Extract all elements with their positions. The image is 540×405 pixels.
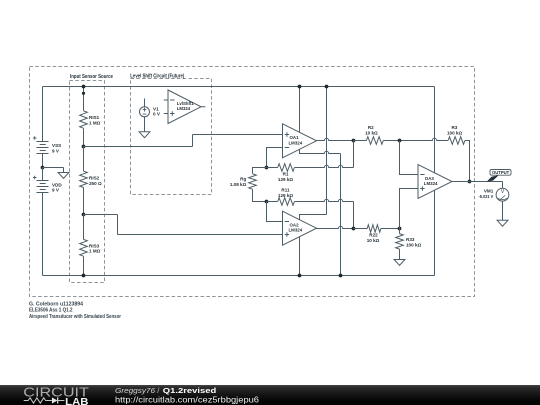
svg-text:V1: V1 (153, 106, 159, 111)
battery VSS (33, 136, 49, 153)
resistor RIS3 (83, 215, 85, 240)
resistor R11 (267, 201, 278, 203)
svg-text:129 kΩ: 129 kΩ (278, 193, 293, 198)
wire left vertical rail to VSS (42, 87, 44, 142)
wire OA3 output to terminal (452, 181, 503, 183)
box Level Shift Circuit (Future) (131, 79, 212, 195)
svg-text:ELE3506 Ass 1 Q1.2: ELE3506 Ass 1 Q1.2 (29, 308, 73, 314)
wire R11 right to OA2 output (294, 199, 353, 228)
wire R3 right to output node (465, 141, 470, 182)
svg-text:10 kΩ: 10 kΩ (367, 238, 380, 243)
wire VM1 to ground (502, 201, 504, 220)
wire junction to ground (left) (43, 168, 64, 173)
svg-text:VM1: VM1 (484, 188, 494, 193)
resistor R2 (354, 140, 367, 142)
svg-text:R22: R22 (369, 233, 378, 238)
svg-text:R2: R2 (368, 125, 374, 130)
node dot rail/RIS1 (82, 85, 86, 89)
svg-text:OUTPUT: OUTPUT (492, 170, 510, 175)
wire OA2 V- pin to bottom rail (299, 237, 301, 276)
svg-text:Greggsy76: Greggsy76 (115, 385, 156, 394)
footer bar (0, 385, 540, 405)
node dot OA2 V-/bottom rail (298, 274, 302, 278)
svg-text:RIS3: RIS3 (89, 243, 100, 248)
voltage source V1 (140, 99, 150, 132)
wire node B to OA2 +in (84, 215, 283, 235)
wire node A to OA1 +in (84, 135, 283, 147)
wire bottom supply rail (43, 275, 435, 277)
node dot R1/Rg/OA1- junction (265, 166, 269, 170)
title block text (29, 301, 121, 320)
wire OA3 +in feed (400, 189, 419, 229)
wire VSS to junction (42, 154, 44, 168)
svg-text:LM324: LM324 (177, 106, 191, 111)
svg-text:LM324: LM324 (424, 181, 438, 186)
svg-text:LM324: LM324 (289, 140, 303, 145)
ground below V1 (139, 132, 150, 138)
resistor RIS1 (83, 87, 85, 111)
wire OA3 V- pin to bottom rail (434, 190, 436, 275)
wire R2 to R3 with hop over OA3 V+ (383, 138, 448, 140)
box Input Sensor Source (70, 81, 105, 283)
node dot rail/OA2 V+ (325, 85, 329, 89)
svg-text:http://circuitlab.com/cez5rbbg: http://circuitlab.com/cez5rbbgjepu6 (115, 395, 259, 404)
node dot RIS3/bottom rail (82, 274, 86, 278)
node dot R3/output (468, 180, 472, 184)
svg-text:/: / (157, 385, 160, 394)
wire OA1 V+ pin to rail (299, 87, 301, 133)
svg-text:250 Ω: 250 Ω (89, 181, 102, 186)
svg-text:R33: R33 (406, 237, 415, 242)
svg-text:LM324: LM324 (289, 228, 303, 233)
node junction VSS/VDD/ground (41, 166, 45, 170)
svg-text:RIS2: RIS2 (89, 175, 100, 180)
wire OA1 -in (267, 148, 283, 168)
wire OA3 -in feed (400, 141, 419, 175)
battery VDD (33, 168, 49, 193)
node dot R2/OA3- feed (398, 139, 402, 143)
node dot OA1 output (352, 139, 356, 143)
op-amp OA2 (283, 211, 317, 245)
resistor R33 (399, 229, 401, 234)
svg-text:LAB: LAB (65, 397, 89, 405)
wire VDD down to bottom rail (42, 193, 44, 276)
wire OA2 -in (267, 202, 283, 222)
ground below R33 (394, 260, 405, 266)
op-amp OA3 (418, 165, 452, 199)
wire VSS drop vertical (340, 154, 342, 276)
ground below VM1 (497, 220, 508, 226)
resistor R1 (267, 167, 278, 169)
wire OA3 V+ pin from rail (434, 87, 436, 173)
ground (left) (58, 173, 69, 179)
CircuitLab logo (23, 384, 89, 405)
svg-text:R1: R1 (283, 172, 289, 177)
node dot R22/R33/OA3+ feed (398, 227, 402, 231)
outer dashed border (30, 67, 475, 297)
svg-text:129 kΩ: 129 kΩ (278, 177, 293, 182)
svg-text:100 kΩ: 100 kΩ (447, 131, 462, 136)
op-amp LvlShft1 (164, 90, 206, 124)
svg-text:9 V: 9 V (52, 148, 60, 153)
resistor R22 (354, 228, 368, 230)
svg-text:1 MΩ: 1 MΩ (89, 249, 101, 254)
node B sensor bottom junction (82, 213, 86, 217)
svg-text:Rg: Rg (240, 177, 246, 182)
svg-text:R11: R11 (281, 188, 290, 193)
svg-text:1 MΩ: 1 MΩ (89, 121, 101, 126)
svg-text:V: V (501, 189, 505, 195)
node A sensor top junction (82, 145, 86, 149)
svg-text:10 kΩ: 10 kΩ (365, 131, 378, 136)
resistor R3 (448, 137, 465, 145)
svg-text:Input Sensor Source: Input Sensor Source (70, 74, 114, 80)
svg-text:Airspeed Transducer with Simul: Airspeed Transducer with Simulated Senso… (29, 314, 121, 320)
wire OA1 output (317, 138, 354, 140)
svg-text:VSS: VSS (52, 143, 61, 148)
node dot rail/OA1 V+ (298, 85, 302, 89)
svg-text:100 kΩ: 100 kΩ (406, 242, 421, 247)
resistor RIS2 (83, 147, 85, 172)
svg-text:Level Shift Circuit (Future): Level Shift Circuit (Future) (130, 73, 184, 79)
op-amp OA1 (283, 124, 317, 158)
OUTPUT flag (487, 170, 511, 182)
wire top supply rail (43, 86, 435, 88)
wire R1 right to OA1 output (294, 141, 353, 168)
svg-text:Q1.2revised: Q1.2revised (163, 385, 217, 394)
svg-text:0 V: 0 V (153, 112, 161, 117)
wire output down to VM1 (502, 182, 504, 189)
svg-text:R3: R3 (451, 125, 457, 130)
voltmeter VM1 (496, 188, 509, 201)
svg-text:9 V: 9 V (52, 188, 60, 193)
wire OA2 output (317, 226, 354, 228)
resistor Rg (253, 168, 267, 174)
svg-text:1.08 kΩ: 1.08 kΩ (230, 182, 247, 187)
svg-text:-5.021 V: -5.021 V (479, 194, 495, 199)
node dot VSS drop/bottom rail (339, 274, 343, 278)
svg-text:VDD: VDD (52, 182, 62, 187)
svg-text:G. Coleborn u1123894: G. Coleborn u1123894 (29, 301, 83, 307)
wire OA1 V- pin to VSS drop (300, 149, 341, 153)
svg-text:RIS1: RIS1 (89, 115, 100, 120)
node dot OA2 output (352, 227, 356, 231)
node dot RIS1 stub (82, 92, 85, 95)
node dot R11/Rg/OA2- junction (265, 200, 269, 204)
wire OA2 V+ pin to rail (300, 87, 327, 220)
